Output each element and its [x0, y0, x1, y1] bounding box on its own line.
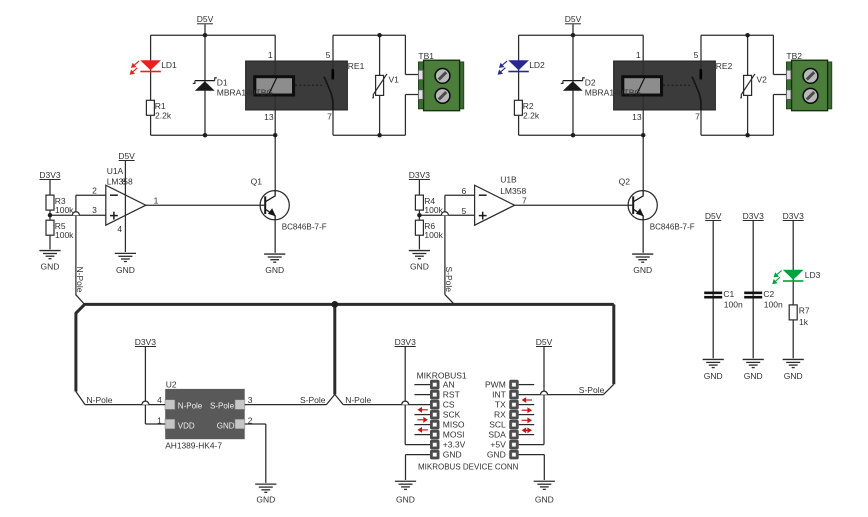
svg-text:3: 3: [92, 205, 97, 215]
svg-text:GND: GND: [443, 450, 462, 460]
svg-text:V2: V2: [757, 74, 768, 84]
svg-text:GND: GND: [784, 371, 803, 381]
svg-text:GND: GND: [217, 422, 235, 431]
svg-text:MOSI: MOSI: [443, 430, 465, 440]
svg-text:AH1389-HK4-7: AH1389-HK4-7: [165, 440, 222, 450]
svg-text:GND: GND: [256, 494, 275, 504]
svg-text:D2: D2: [585, 78, 596, 88]
svg-text:INT: INT: [492, 390, 506, 400]
svg-text:S-Pole: S-Pole: [444, 267, 454, 293]
svg-text:5: 5: [461, 206, 466, 216]
svg-text:S-Pole: S-Pole: [210, 401, 235, 410]
svg-text:7: 7: [695, 112, 700, 122]
svg-text:D5V: D5V: [118, 151, 135, 161]
svg-text:RE2: RE2: [716, 61, 733, 71]
svg-text:LD3: LD3: [805, 270, 821, 280]
svg-text:Q1: Q1: [251, 176, 263, 186]
svg-text:3: 3: [248, 395, 253, 405]
svg-text:MBRA140TBG: MBRA140TBG: [217, 87, 273, 97]
svg-text:N-Pole: N-Pole: [178, 401, 203, 410]
svg-text:7: 7: [327, 112, 332, 122]
svg-text:GND: GND: [633, 265, 652, 275]
svg-text:GND: GND: [116, 265, 135, 275]
svg-text:VDD: VDD: [178, 422, 195, 431]
svg-text:6: 6: [461, 186, 466, 196]
svg-text:TB1: TB1: [418, 51, 434, 61]
svg-text:GND: GND: [744, 371, 763, 381]
svg-text:Q2: Q2: [619, 176, 631, 186]
svg-text:LD1: LD1: [161, 60, 177, 70]
svg-text:C2: C2: [763, 289, 774, 299]
svg-text:100n: 100n: [764, 300, 783, 310]
svg-text:RX: RX: [494, 410, 506, 420]
svg-text:MISO: MISO: [443, 420, 465, 430]
svg-text:MIKROBUS DEVICE CONN: MIKROBUS DEVICE CONN: [418, 463, 519, 472]
svg-text:GND: GND: [265, 265, 284, 275]
svg-text:D3V3: D3V3: [743, 211, 765, 221]
svg-text:D3V3: D3V3: [39, 170, 61, 180]
svg-text:GND: GND: [704, 371, 723, 381]
svg-text:1: 1: [636, 50, 641, 60]
svg-text:V1: V1: [389, 74, 400, 84]
svg-text:TB2: TB2: [786, 51, 802, 61]
svg-text:N-Pole: N-Pole: [87, 395, 113, 405]
svg-text:D3V3: D3V3: [409, 170, 431, 180]
svg-text:SCK: SCK: [443, 410, 461, 420]
svg-text:BC846B-7-F: BC846B-7-F: [650, 223, 695, 232]
svg-text:U1A: U1A: [107, 166, 124, 176]
svg-text:U1B: U1B: [500, 174, 517, 184]
svg-text:AN: AN: [443, 380, 455, 390]
svg-text:4: 4: [157, 395, 162, 405]
svg-text:GND: GND: [396, 494, 415, 504]
svg-text:1: 1: [157, 416, 162, 426]
svg-text:U2: U2: [166, 379, 177, 389]
svg-text:MBRA140TBG: MBRA140TBG: [585, 87, 641, 97]
svg-text:MIKROBUS1: MIKROBUS1: [417, 370, 467, 380]
svg-text:5: 5: [694, 50, 699, 60]
svg-text:1k: 1k: [799, 317, 809, 327]
svg-text:D5V: D5V: [197, 14, 214, 24]
svg-text:LM358: LM358: [500, 186, 526, 196]
svg-text:13: 13: [264, 112, 274, 122]
svg-text:5: 5: [326, 50, 331, 60]
svg-text:GND: GND: [487, 450, 506, 460]
svg-text:7: 7: [522, 195, 527, 205]
svg-text:C1: C1: [723, 289, 734, 299]
svg-text:1: 1: [154, 195, 159, 205]
svg-text:100k: 100k: [424, 205, 443, 215]
svg-text:RE1: RE1: [348, 61, 365, 71]
svg-text:S-Pole: S-Pole: [300, 395, 326, 405]
svg-text:100n: 100n: [724, 300, 743, 310]
svg-text:S-Pole: S-Pole: [579, 385, 605, 395]
svg-text:SDA: SDA: [488, 430, 506, 440]
svg-text:8: 8: [122, 177, 127, 187]
svg-text:PWM: PWM: [485, 380, 506, 390]
svg-text:2: 2: [248, 416, 253, 426]
svg-text:+3.3V: +3.3V: [443, 440, 466, 450]
svg-text:D5V: D5V: [536, 337, 553, 347]
svg-text:SCL: SCL: [489, 420, 506, 430]
svg-text:13: 13: [632, 112, 642, 122]
svg-text:GND: GND: [410, 261, 429, 271]
svg-text:CS: CS: [443, 400, 455, 410]
svg-text:D3V3: D3V3: [135, 337, 157, 347]
svg-text:GND: GND: [41, 261, 60, 271]
svg-text:D3V3: D3V3: [783, 211, 805, 221]
svg-text:D5V: D5V: [565, 14, 582, 24]
svg-text:TX: TX: [495, 400, 506, 410]
svg-text:N-Pole: N-Pole: [345, 395, 371, 405]
svg-text:2: 2: [92, 185, 97, 195]
svg-text:D5V: D5V: [705, 211, 722, 221]
svg-text:100k: 100k: [55, 230, 74, 240]
svg-text:2.2k: 2.2k: [155, 111, 172, 121]
svg-text:+5V: +5V: [490, 440, 506, 450]
svg-text:2.2k: 2.2k: [523, 111, 540, 121]
svg-text:RST: RST: [443, 390, 460, 400]
svg-text:4: 4: [117, 224, 122, 234]
svg-text:R7: R7: [799, 306, 810, 316]
svg-text:1: 1: [268, 50, 273, 60]
svg-text:LM358: LM358: [107, 177, 133, 187]
svg-text:100k: 100k: [55, 205, 74, 215]
svg-text:GND: GND: [535, 494, 554, 504]
svg-text:N-Pole: N-Pole: [75, 267, 85, 293]
svg-text:BC846B-7-F: BC846B-7-F: [282, 223, 327, 232]
svg-text:D1: D1: [217, 78, 228, 88]
svg-text:100k: 100k: [424, 230, 443, 240]
svg-text:D3V3: D3V3: [395, 337, 417, 347]
svg-text:LD2: LD2: [529, 60, 545, 70]
